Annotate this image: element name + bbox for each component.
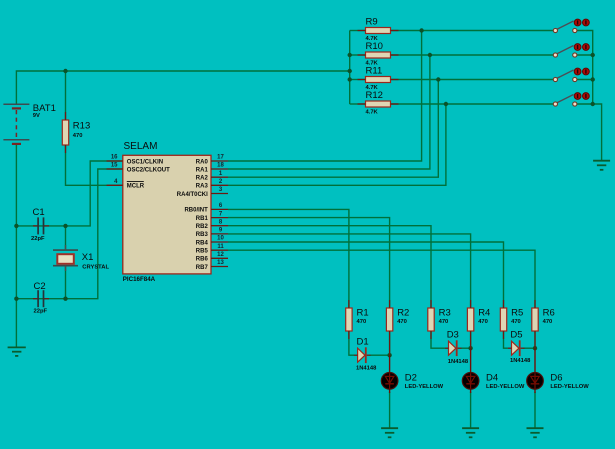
pin 17 RA0 [196, 155, 228, 166]
resistor R2 [386, 308, 409, 331]
wire D5 cathode to node [524, 347, 536, 349]
wire RB0 to R1 [228, 209, 349, 308]
resistor R10 pins [358, 54, 366, 56]
svg-text:22pF: 22pF [34, 308, 48, 314]
IC U1 PIC16F84A (SELAM) [107, 141, 229, 283]
wire RB3 to R4 [228, 234, 471, 308]
wire RB1 to R2 [228, 218, 390, 308]
svg-text:R9: R9 [366, 17, 378, 28]
svg-text:C2: C2 [34, 281, 46, 292]
node switch bus row3 [591, 77, 595, 81]
svg-text:18: 18 [217, 163, 224, 169]
svg-text:11: 11 [217, 244, 224, 250]
svg-text:RA0: RA0 [196, 159, 209, 165]
wire resistor-bank left bus [349, 31, 351, 105]
wire R9 row [350, 30, 366, 32]
node switch bus row2 [591, 53, 595, 57]
wire R3 to D3 anode [431, 331, 445, 348]
svg-text:D5: D5 [510, 330, 522, 341]
wire RA0 net [228, 31, 422, 162]
pin 15 OSC2/CLKOUT [107, 163, 171, 174]
svg-text:R4: R4 [478, 308, 490, 319]
pin 10 RB4 [196, 236, 228, 247]
pin 13 RB7 [196, 260, 228, 271]
pin 6 RB0/INT [184, 203, 228, 214]
svg-text:470: 470 [439, 319, 449, 325]
diode D3 [445, 330, 469, 365]
wire R4 bottom [470, 331, 472, 348]
resistor R6 [532, 308, 555, 331]
pin 9 RB3 [196, 228, 228, 239]
svg-text:D2: D2 [405, 372, 417, 383]
resistor R2 pins [389, 300, 391, 308]
switch SW3 [553, 68, 589, 82]
LED D4 [462, 348, 525, 393]
svg-text:OSC1/CLKIN: OSC1/CLKIN [127, 159, 163, 165]
node RA3/R12 [444, 102, 448, 106]
diode D1 [354, 336, 377, 371]
wire R13 bottom to MCLR [66, 145, 123, 185]
svg-text:R2: R2 [397, 308, 409, 319]
switch SW2 [553, 44, 589, 58]
svg-text:LED-YELLOW: LED-YELLOW [486, 384, 525, 390]
pin 16 OSC1/CLKIN [107, 155, 164, 166]
pin 7 RB1 [196, 211, 228, 222]
node D3/R4/D4 [468, 346, 472, 350]
ground (D2) [381, 428, 398, 437]
svg-text:470: 470 [511, 319, 521, 325]
pin 8 RB2 [196, 219, 228, 230]
svg-text:RA3: RA3 [196, 184, 209, 190]
svg-text:15: 15 [111, 163, 118, 169]
LED D2 [381, 355, 443, 393]
node RA1/R10 [428, 53, 432, 57]
wire RA2 net [228, 80, 438, 178]
resistor R3 [428, 308, 451, 331]
node D5/R6/D6 [533, 346, 537, 350]
node bus/supply [348, 69, 352, 73]
svg-text:22pF: 22pF [31, 236, 45, 242]
svg-text:R12: R12 [366, 90, 383, 101]
ground (D4) [462, 428, 479, 437]
wire R13 top stem [65, 71, 67, 120]
resistor R9 [366, 17, 391, 42]
node bus/R11 [348, 77, 352, 81]
pin 18 RA1 [196, 163, 228, 174]
pin 2 RA3 [196, 179, 228, 190]
svg-text:R10: R10 [366, 41, 383, 52]
svg-text:470: 470 [357, 319, 367, 325]
resistor R11 [366, 66, 391, 91]
svg-text:LED-YELLOW: LED-YELLOW [405, 384, 444, 390]
svg-text:17: 17 [217, 155, 224, 161]
resistor R5 pins [503, 300, 505, 308]
wire D6 LED to ground [534, 392, 536, 428]
svg-text:R5: R5 [511, 308, 523, 319]
resistor R4 pins [470, 300, 472, 308]
svg-text:SELAM: SELAM [124, 141, 158, 152]
svg-text:RA4/T0CKI: RA4/T0CKI [177, 192, 208, 198]
svg-text:C1: C1 [33, 207, 45, 218]
ground (left bus) [8, 347, 26, 356]
node bus/R10 [348, 53, 352, 57]
resistor R13 [62, 120, 90, 145]
svg-text:PIC16F84A: PIC16F84A [123, 276, 156, 283]
svg-text:RB4: RB4 [196, 240, 209, 246]
pin 12 RB6 [196, 252, 228, 263]
wire RB5 to R6 [228, 250, 535, 308]
wire switch output bus [577, 31, 593, 105]
svg-text:MCLR: MCLR [127, 184, 145, 190]
wire RB4 to R5 [228, 242, 504, 308]
wire C2 row to OSC2 [16, 169, 122, 299]
resistor R12 pins [358, 103, 366, 105]
LED D6 [527, 348, 590, 393]
resistor R10 [366, 41, 391, 66]
svg-text:RB5: RB5 [196, 249, 209, 255]
node RA2/R11 [436, 77, 440, 81]
svg-text:LED-YELLOW: LED-YELLOW [550, 384, 589, 390]
resistor R13 pins [65, 112, 67, 120]
wire RA1 net [228, 55, 430, 169]
wire D3 cathode to node [461, 347, 471, 349]
node C1/left bus [14, 224, 18, 228]
svg-text:CRYSTAL: CRYSTAL [82, 264, 109, 270]
ground (switch bus) [593, 161, 610, 170]
wire RB2 to R3 [228, 226, 431, 308]
svg-text:RA1: RA1 [196, 167, 209, 173]
svg-text:D3: D3 [447, 330, 459, 341]
wire R12 row [350, 103, 366, 105]
svg-text:470: 470 [478, 319, 488, 325]
svg-text:RB2: RB2 [196, 224, 209, 230]
svg-text:R1: R1 [357, 308, 369, 319]
resistor R4 [467, 308, 490, 331]
node C2/crystal [63, 297, 67, 301]
svg-text:OSC2/CLKOUT: OSC2/CLKOUT [127, 167, 170, 173]
svg-text:1N4148: 1N4148 [356, 366, 377, 372]
wire top supply bus [16, 71, 349, 104]
svg-text:RB0/INT: RB0/INT [184, 208, 208, 214]
ground (D6) [527, 428, 544, 437]
wire R1 to D1 anode [349, 331, 354, 355]
svg-text:RB1: RB1 [196, 216, 209, 222]
resistor R1 [346, 308, 369, 331]
resistor R12 [366, 90, 391, 115]
svg-text:R6: R6 [543, 308, 555, 319]
wire RA3 net [228, 104, 446, 185]
svg-text:12: 12 [217, 252, 224, 258]
svg-text:1N4148: 1N4148 [510, 358, 531, 364]
svg-text:4.7K: 4.7K [366, 110, 379, 116]
wire left ground bus [15, 144, 17, 348]
pin 3 RA4/T0CKI [177, 187, 228, 198]
resistor R1 pins [348, 300, 350, 308]
svg-text:D1: D1 [357, 336, 369, 347]
svg-text:10: 10 [217, 236, 224, 242]
capacitor C2 [33, 281, 49, 315]
crystal X1 [53, 245, 109, 271]
svg-text:470: 470 [543, 319, 553, 325]
svg-text:R11: R11 [366, 66, 383, 77]
svg-text:D4: D4 [486, 372, 498, 383]
wire crystal bottom stem [65, 266, 67, 299]
component pin stubs (dark red) [66, 31, 536, 356]
switch SW1 [553, 19, 589, 32]
svg-text:13: 13 [217, 260, 224, 266]
svg-text:X1: X1 [82, 252, 94, 263]
pin 4 MCLR [107, 179, 145, 190]
resistor R9 pins [358, 30, 366, 32]
wire crystal top stem [65, 226, 67, 250]
wire R5 to D5 anode [504, 331, 508, 348]
svg-text:D6: D6 [550, 372, 562, 383]
svg-text:1N4148: 1N4148 [448, 359, 469, 365]
svg-text:R13: R13 [73, 121, 90, 132]
wire R2 bottom [389, 331, 391, 355]
wire D4 LED to ground [470, 392, 472, 428]
wire D1 cathode to node [370, 354, 390, 356]
node C1/crystal [63, 224, 67, 228]
svg-text:RB7: RB7 [196, 265, 209, 271]
wire R11 row [350, 79, 366, 81]
node R13/top-bus [63, 69, 67, 73]
node D1/R2/D2 [387, 353, 391, 357]
svg-text:RB6: RB6 [196, 257, 209, 263]
svg-text:RB3: RB3 [196, 232, 209, 238]
node RA0/R9 [419, 28, 423, 32]
resistor R11 pins [358, 79, 366, 81]
battery BAT1 [3, 103, 55, 144]
node switch bus row4 [591, 102, 595, 106]
svg-text:470: 470 [397, 319, 407, 325]
capacitor C1 [31, 207, 49, 242]
diode D5 [508, 330, 531, 364]
svg-text:R3: R3 [439, 308, 451, 319]
wire C1 row to OSC1 [16, 161, 122, 226]
svg-text:RA2: RA2 [196, 176, 209, 182]
pin 11 RB5 [196, 244, 228, 255]
wire R10 row [350, 54, 366, 56]
resistor R6 pins [534, 300, 536, 308]
svg-text:9V: 9V [33, 113, 40, 119]
svg-text:16: 16 [111, 155, 118, 161]
svg-text:470: 470 [73, 133, 83, 139]
node C2/left bus [14, 297, 18, 301]
resistor R5 [500, 308, 523, 331]
wire D2 LED to ground [389, 392, 391, 428]
pin 1 RA2 [196, 171, 228, 182]
wire R6 bottom [534, 331, 536, 348]
resistor R3 pins [430, 300, 432, 308]
switch SW4 [553, 93, 589, 107]
